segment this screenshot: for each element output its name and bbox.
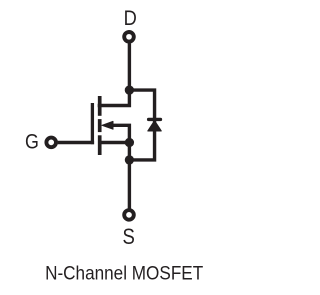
- svg-text:S: S: [123, 226, 135, 250]
- svg-text:D: D: [124, 7, 137, 31]
- svg-text:G: G: [25, 130, 39, 154]
- svg-text:N-Channel MOSFET: N-Channel MOSFET: [45, 262, 203, 284]
